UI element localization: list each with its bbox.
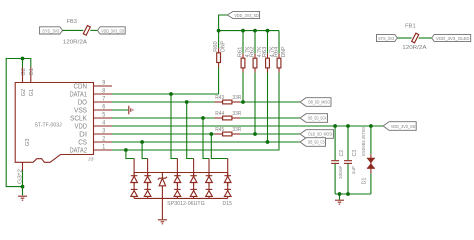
svg-text:SYS_3V3: SYS_3V3 bbox=[378, 36, 394, 41]
wire pull-up bus bbox=[219, 30, 279, 32]
wire R64 lead bbox=[278, 71, 280, 73]
net flag OB_SD_CS bbox=[300, 138, 326, 147]
wire DATA2 (pin 1) to R64 bbox=[112, 72, 279, 150]
wire SYS_3V3 to FB3 bbox=[63, 29, 84, 31]
svg-text:C2: C2 bbox=[339, 150, 345, 157]
node bus junction bbox=[241, 29, 245, 33]
svg-text:J3: J3 bbox=[88, 157, 94, 162]
svg-text:G1: G1 bbox=[29, 68, 35, 76]
svg-text:R64: R64 bbox=[273, 47, 279, 58]
svg-text:VDD: VDD bbox=[75, 123, 88, 130]
node pull-up junction bbox=[253, 132, 257, 136]
wire DATA1 (pin 8) bbox=[112, 93, 219, 95]
node ESD tap junction bbox=[209, 132, 213, 136]
wire R62 down to signal bbox=[254, 72, 256, 134]
node ESD tap junction bbox=[169, 92, 173, 96]
wire bus to R60 bbox=[218, 31, 220, 49]
connector J3 pin 4 VDD bbox=[75, 120, 113, 131]
resistor R62 4.7K pull-up bbox=[249, 46, 262, 73]
svg-text:5: 5 bbox=[102, 112, 105, 119]
connector J3 ST-TF-003J body bbox=[15, 83, 94, 163]
connector J3 pin G3 (bottom) bbox=[17, 138, 31, 184]
svg-text:120R/2A: 120R/2A bbox=[402, 45, 426, 51]
svg-text:1uF: 1uF bbox=[351, 166, 357, 175]
svg-text:SYS_3V3: SYS_3V3 bbox=[42, 28, 59, 33]
net flag OB_SD_SCK bbox=[300, 114, 328, 123]
net flag SYS_3V3 (FB1 left) bbox=[377, 34, 398, 41]
node w4 junction C3 bbox=[346, 124, 350, 128]
wire GND stem decoupling bbox=[339, 194, 341, 200]
resistor R63 4.7K pull-up bbox=[262, 46, 276, 73]
connector J3 pin 7 DO bbox=[78, 96, 112, 107]
svg-text:1: 1 bbox=[102, 144, 105, 151]
ESD diode pair column x=193.6 bbox=[190, 173, 197, 199]
wire decoupling ground rail bbox=[335, 193, 371, 195]
wire R60 down to signal bbox=[218, 67, 220, 94]
svg-text:ESD9B3.3ST5G: ESD9B3.3ST5G bbox=[361, 126, 366, 155]
svg-text:VDD_3V3_SD: VDD_3V3_SD bbox=[391, 124, 416, 129]
svg-text:7: 7 bbox=[102, 96, 105, 103]
wire CS (pin 2) bbox=[112, 141, 300, 143]
wire VDD (pin 4) to capacitors bbox=[112, 125, 383, 127]
net flag OLB_SD_MOSI bbox=[300, 130, 334, 139]
ESD diode pair column x=134.1 bbox=[131, 173, 138, 199]
svg-text:G1: G1 bbox=[29, 89, 35, 97]
wire ESD ground stem bbox=[161, 198, 163, 219]
connector J3 pin 6 VSS bbox=[74, 104, 112, 115]
connector J3 pin 3 DI bbox=[79, 128, 112, 139]
net flag VDD_3V3_SD (top) bbox=[227, 11, 259, 18]
ground symbol bottom-left bbox=[18, 196, 27, 200]
svg-text:VSS: VSS bbox=[74, 107, 87, 114]
svg-text:G3: G3 bbox=[25, 138, 31, 146]
wire bus to R62 bbox=[254, 31, 256, 54]
svg-text:100nF: 100nF bbox=[338, 166, 344, 180]
wire R43 to OB_SD_MISO bbox=[240, 101, 300, 103]
wire DO (pin 7) to R43 bbox=[112, 101, 215, 103]
connector J3 pin 2 CS bbox=[78, 136, 112, 147]
wire ESD tap bbox=[187, 102, 194, 159]
wire FB3 to VDD_3V3_SD bbox=[90, 29, 97, 31]
node bus junction bbox=[253, 29, 257, 33]
connector J3 pin G2 (top) bbox=[21, 67, 27, 96]
net flag VDD_3V3_OLED (FB1 right) bbox=[432, 34, 471, 41]
svg-text:FB1: FB1 bbox=[405, 24, 416, 30]
ESD array D15 SP3012-06UTG rails bbox=[134, 173, 232, 207]
net flag SYS_3V3 (FB3 left) bbox=[40, 27, 63, 34]
ESD diode pair column x=227.7 bbox=[224, 173, 231, 199]
resistor R60 DNP pull-up bbox=[213, 40, 227, 67]
svg-text:9: 9 bbox=[102, 80, 105, 87]
svg-text:OB_SD_CS: OB_SD_CS bbox=[308, 140, 325, 145]
svg-text:SCLK: SCLK bbox=[70, 115, 87, 122]
node junction G3/GND bbox=[21, 185, 25, 189]
ESD diode pair column x=209.0 bbox=[206, 173, 213, 199]
svg-text:OB_SD_MISO: OB_SD_MISO bbox=[308, 100, 331, 105]
svg-text:R63: R63 bbox=[262, 47, 268, 58]
svg-text:DATA1: DATA1 bbox=[70, 91, 88, 98]
node ESD tap junction bbox=[124, 148, 128, 152]
wire ESD tap bbox=[126, 150, 134, 159]
svg-text:OB_SD_SCK: OB_SD_SCK bbox=[308, 116, 327, 121]
node ESD tap junction bbox=[185, 100, 189, 104]
wire bus to R61 bbox=[242, 31, 244, 54]
connector J3 pin 8 DATA1 bbox=[70, 88, 113, 99]
wire ESD tap bbox=[211, 134, 227, 159]
wire bus to R64 bbox=[278, 31, 280, 54]
svg-text:FB3: FB3 bbox=[66, 19, 77, 25]
svg-text:33R: 33R bbox=[232, 111, 241, 117]
net flag OB_SD_MISO bbox=[300, 98, 331, 107]
svg-text:G2: G2 bbox=[21, 68, 27, 76]
resistor R43 33R bbox=[215, 95, 242, 104]
resistor R64 DNP pull-up bbox=[273, 46, 287, 73]
node bus junction bbox=[217, 29, 221, 33]
node ESD tap junction bbox=[140, 140, 144, 144]
svg-text:33R: 33R bbox=[232, 127, 241, 133]
svg-text:2: 2 bbox=[102, 136, 105, 143]
wire ESD tap bbox=[171, 94, 177, 159]
ground symbol ESD bbox=[158, 220, 167, 224]
net flag VDD_3V3_SD (FB3 right) bbox=[98, 27, 126, 34]
svg-text:DNP: DNP bbox=[220, 40, 226, 51]
svg-text:R43: R43 bbox=[215, 95, 224, 101]
node w4 junction C2 bbox=[333, 124, 337, 128]
wire ESD tap bbox=[142, 142, 148, 159]
resistor R44 33R bbox=[215, 111, 242, 120]
wire DI (pin 3) to R45 bbox=[112, 133, 215, 135]
ESD diode pair column x=147.6 bbox=[144, 173, 151, 199]
svg-text:C3: C3 bbox=[352, 150, 358, 157]
wire GND stem bottom-left bbox=[22, 187, 24, 196]
svg-text:D1: D1 bbox=[362, 178, 368, 185]
node bus junction bbox=[266, 29, 270, 33]
node pull-up junction bbox=[266, 140, 270, 144]
wire bus to R63 bbox=[267, 31, 269, 54]
svg-text:VDD_3V3_OLED: VDD_3V3_OLED bbox=[436, 36, 470, 41]
capacitor C3 1uF bbox=[344, 126, 358, 194]
wire VDD_3V3_SD flag to pull-up bus bbox=[219, 15, 228, 31]
wire SCLK (pin 5) to R44 bbox=[112, 117, 215, 119]
node ESD tap junction bbox=[201, 116, 205, 120]
ferrite bead FB1 bbox=[402, 24, 426, 51]
resistor R61 4.7K pull-up bbox=[237, 46, 251, 73]
wire FB1 to VDD_3V3_OLED bbox=[419, 37, 432, 39]
svg-text:R44: R44 bbox=[215, 111, 224, 117]
node junction G2/G1 bbox=[21, 57, 25, 61]
connector J3 pin 5 SCLK bbox=[70, 112, 112, 123]
svg-text:VDD_3V3_SD: VDD_3V3_SD bbox=[101, 28, 125, 33]
TVS diode D1 ESD9B3.3ST5G bbox=[361, 126, 375, 194]
svg-text:R61: R61 bbox=[237, 47, 243, 58]
svg-text:120R/2A: 120R/2A bbox=[63, 40, 87, 46]
svg-text:R45: R45 bbox=[215, 127, 224, 133]
svg-text:4: 4 bbox=[102, 120, 105, 127]
zener diode D15 center bbox=[158, 173, 167, 199]
svg-text:DO: DO bbox=[78, 99, 88, 106]
svg-text:G2: G2 bbox=[21, 89, 27, 97]
ground symbol VSS (rotated) bbox=[129, 106, 133, 115]
svg-text:OLB_SD_MOSI: OLB_SD_MOSI bbox=[308, 132, 333, 137]
svg-text:DATA2: DATA2 bbox=[70, 147, 88, 154]
wire R61 down to signal bbox=[242, 72, 244, 102]
wire SYS_3V3 to FB1 bbox=[397, 37, 411, 39]
wire ESD tap bbox=[203, 118, 209, 159]
wire R45 to OB_SD_MOSI bbox=[240, 133, 300, 135]
capacitor C2 100nF bbox=[331, 126, 345, 194]
ESD diode pair column x=177.4 bbox=[174, 173, 181, 199]
connector J3 pin 1 DATA2 bbox=[70, 144, 113, 155]
wire VSS (pin 6) bbox=[112, 109, 128, 111]
node gnd junction stem bbox=[338, 192, 342, 196]
svg-text:R62: R62 bbox=[249, 47, 255, 58]
svg-text:DNP: DNP bbox=[281, 46, 287, 57]
wire R63 down to signal bbox=[267, 72, 269, 142]
svg-text:CS: CS bbox=[78, 139, 87, 146]
wire G2 pin to junction bbox=[22, 59, 24, 68]
node pull-up junction bbox=[241, 100, 245, 104]
svg-text:3: 3 bbox=[102, 128, 105, 135]
svg-text:DI: DI bbox=[79, 131, 87, 138]
net flag VDD_3V3_SD (right of w4) bbox=[383, 122, 416, 131]
connector J3 pin G1 (top) bbox=[29, 67, 35, 96]
ground symbol decoupling bbox=[335, 200, 344, 204]
svg-text:R60: R60 bbox=[213, 41, 219, 52]
svg-text:6: 6 bbox=[102, 104, 105, 111]
node w4 junction D1 bbox=[369, 124, 373, 128]
svg-text:ST-TF-003J: ST-TF-003J bbox=[35, 122, 63, 128]
svg-text:D15: D15 bbox=[223, 201, 233, 207]
node gnd junction C3 bbox=[346, 192, 350, 196]
svg-text:CDN: CDN bbox=[74, 83, 88, 90]
ferrite bead FB3 bbox=[63, 19, 91, 46]
svg-text:VDD_3V3_SD: VDD_3V3_SD bbox=[234, 13, 259, 18]
wire R44 to OB_SD_SCK bbox=[240, 117, 300, 119]
wire G1 to left ground rail bbox=[6, 59, 31, 187]
connector J3 pin 9 CDN bbox=[74, 80, 113, 91]
resistor R45 33R bbox=[215, 127, 242, 136]
svg-text:33R: 33R bbox=[232, 95, 241, 101]
svg-text:8: 8 bbox=[102, 88, 105, 95]
svg-text:SP3012-06UTG: SP3012-06UTG bbox=[167, 201, 205, 207]
